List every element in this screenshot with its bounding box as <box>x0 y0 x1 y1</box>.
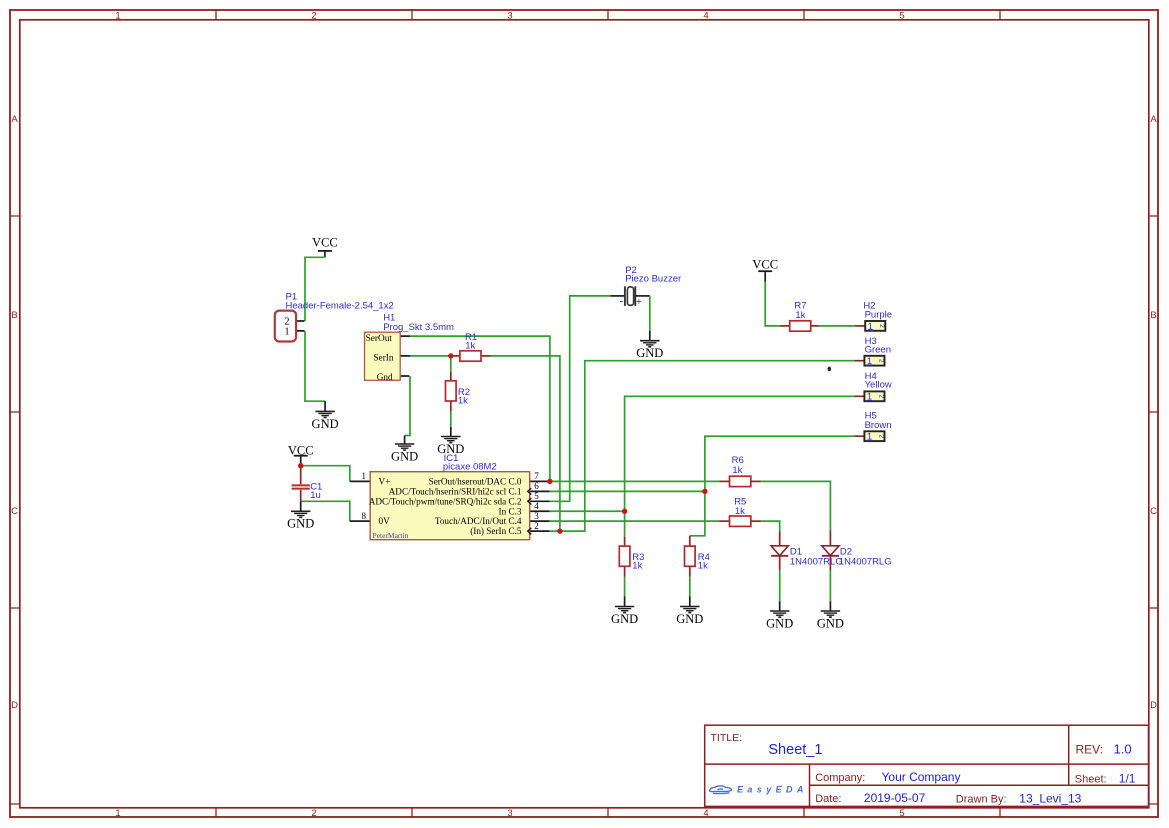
svg-text:GND: GND <box>676 612 703 626</box>
diode D2 1N4007RLG <box>822 530 892 570</box>
svg-text:+: + <box>636 297 642 308</box>
wire IC1 pin 6 row <box>550 490 705 492</box>
wire D2 to GND <box>829 570 831 601</box>
svg-text:VCC: VCC <box>312 235 338 249</box>
svg-text:7: 7 <box>534 471 539 481</box>
svg-text:1k: 1k <box>458 395 468 406</box>
svg-text:Sheet_1: Sheet_1 <box>768 742 822 758</box>
svg-text:Drawn By:: Drawn By: <box>956 793 1007 805</box>
ground (D2) <box>817 601 844 630</box>
svg-text:1k: 1k <box>698 560 708 571</box>
wire VCC to IC1 pin 1 <box>301 466 350 482</box>
wire D1 to GND <box>779 570 781 601</box>
svg-text:Piezo Buzzer: Piezo Buzzer <box>625 274 681 285</box>
socket H1 Prog_Skt 3.5mm <box>365 312 455 383</box>
svg-text:5: 5 <box>534 491 539 501</box>
svg-text:1k: 1k <box>735 506 745 517</box>
wire IC1 pin 3 to R5 <box>550 520 720 522</box>
svg-text:3: 3 <box>534 511 539 521</box>
svg-text:3: 3 <box>507 11 512 22</box>
svg-text:5: 5 <box>899 808 904 819</box>
svg-text:ADC/Touch/hserin/SRI/hi2c scl: ADC/Touch/hserin/SRI/hi2c scl C.1 <box>389 486 522 496</box>
wire pin6 junction up to H5 <box>705 436 854 491</box>
resistor R6 1k <box>719 455 761 487</box>
svg-text:SerIn: SerIn <box>373 353 393 363</box>
node junction VCC/C1 <box>298 463 303 468</box>
ground (R2) <box>437 427 464 456</box>
svg-text:In C.3: In C.3 <box>499 506 522 516</box>
svg-text:EasyEDA: EasyEDA <box>737 785 808 795</box>
svg-text:1: 1 <box>362 471 367 481</box>
ground (R4) <box>676 596 703 626</box>
wire pin4 junction up to H4 <box>625 396 855 511</box>
wire IC1 pin 2 row to H3 riser <box>550 361 855 531</box>
svg-text:B: B <box>1150 310 1156 321</box>
svg-text:2: 2 <box>877 434 884 438</box>
svg-text:GND: GND <box>766 616 793 630</box>
wire IC1 pin 4 row <box>550 510 625 512</box>
svg-text:Yellow: Yellow <box>865 380 892 391</box>
wire H1 Gnd to GND <box>405 376 410 436</box>
wire R2 to GND <box>450 411 452 427</box>
resistor R4 1k <box>685 536 710 577</box>
svg-text:Prog_Skt 3.5mm: Prog_Skt 3.5mm <box>383 322 454 333</box>
svg-text:1N4007RLG: 1N4007RLG <box>839 556 892 567</box>
svg-text:6: 6 <box>534 481 539 491</box>
svg-text:Gnd: Gnd <box>377 373 393 383</box>
wire C1 bottom to IC1 pin 8 <box>301 501 350 521</box>
svg-text:C: C <box>1150 506 1157 517</box>
svg-text:GND: GND <box>611 612 638 626</box>
svg-text:2: 2 <box>311 11 316 22</box>
svg-text:D: D <box>1150 700 1157 711</box>
wire H1 SerIn to R1/R2 junction <box>410 355 451 357</box>
header H4 Yellow <box>854 371 892 403</box>
svg-text:TITLE:: TITLE: <box>711 732 743 744</box>
pin arrows (input indicators) pins 6,5,2 <box>528 488 532 534</box>
svg-text:GND: GND <box>636 346 663 360</box>
svg-text:1k: 1k <box>465 340 475 351</box>
svg-text:A: A <box>1150 114 1157 125</box>
svg-text:4: 4 <box>534 501 539 511</box>
svg-text:Brown: Brown <box>865 420 892 431</box>
wire R4 to GND <box>689 577 691 597</box>
svg-text:GND: GND <box>391 449 418 463</box>
svg-text:0V: 0V <box>379 516 391 526</box>
svg-text:2: 2 <box>877 394 884 398</box>
svg-text:2: 2 <box>534 521 539 531</box>
ground (R3) <box>611 596 638 626</box>
svg-text:ADC/Touch/pwm/tune/SRQ/hi2c sd: ADC/Touch/pwm/tune/SRQ/hi2c sda C.2 <box>369 496 522 506</box>
svg-text:2019-05-07: 2019-05-07 <box>864 791 926 805</box>
svg-text:Header-Female-2.54_1x2: Header-Female-2.54_1x2 <box>286 301 394 312</box>
svg-text:8: 8 <box>362 511 367 521</box>
header H2 Purple <box>855 300 892 332</box>
svg-text:Company:: Company: <box>815 772 865 784</box>
svg-text:C: C <box>11 506 18 517</box>
node junction pin4 <box>622 509 627 514</box>
wire buzzer to GND <box>649 296 651 331</box>
svg-text:picaxe 08M2: picaxe 08M2 <box>443 462 497 473</box>
svg-text:Green: Green <box>865 344 891 355</box>
wire P1 pin 1 to GND <box>305 331 325 401</box>
ground (P2) <box>636 331 663 360</box>
wire VCC to R7 <box>765 282 779 326</box>
ground (D1) <box>766 601 793 630</box>
svg-text:B: B <box>11 310 17 321</box>
svg-text:5: 5 <box>899 11 904 22</box>
svg-text:(In) SerIn C.5: (In) SerIn C.5 <box>470 526 522 536</box>
svg-text:GND: GND <box>287 517 314 531</box>
svg-text:1u: 1u <box>310 490 321 501</box>
wire H1 SerOut to IC1 pin 7 <box>410 336 550 481</box>
svg-text:SerOut/hserout/DAC C.0: SerOut/hserout/DAC C.0 <box>429 476 522 486</box>
VCC symbol (right, at R7) <box>752 258 778 282</box>
svg-text:PeterMartin: PeterMartin <box>373 531 409 540</box>
svg-text:1/1: 1/1 <box>1119 771 1136 785</box>
svg-text:13_Levi_13: 13_Levi_13 <box>1019 791 1081 805</box>
svg-text:4: 4 <box>703 808 708 819</box>
header H5 Brown <box>854 411 891 443</box>
wire R1 to IC1 pin 2 riser <box>491 356 560 531</box>
svg-text:-: - <box>620 296 623 307</box>
svg-text:A: A <box>11 114 18 125</box>
svg-text:GND: GND <box>312 417 339 431</box>
svg-text:2: 2 <box>311 808 316 819</box>
VCC symbol (left, at C1) <box>288 443 314 464</box>
svg-text:Sheet:: Sheet: <box>1075 773 1107 785</box>
svg-text:SerOut: SerOut <box>366 334 393 344</box>
svg-text:1k: 1k <box>732 465 742 476</box>
svg-text:1k: 1k <box>632 561 642 572</box>
svg-text:V+: V+ <box>379 476 391 486</box>
resistor R1 1k <box>451 332 491 361</box>
wire R3 to GND <box>624 577 626 597</box>
svg-text:1: 1 <box>115 808 120 819</box>
wire IC1 pin 7 to R6 <box>550 480 720 482</box>
svg-text:Purple: Purple <box>865 309 892 320</box>
header H3 Green <box>854 336 891 367</box>
connector P1 Header-Female-2.54_1x2 <box>275 291 394 341</box>
svg-text:D: D <box>11 700 18 711</box>
svg-text:1N4007RLG: 1N4007RLG <box>790 556 843 567</box>
svg-text:1k: 1k <box>795 310 805 321</box>
VCC symbol (top, net VCC) <box>312 235 338 257</box>
wire R6 to D2 <box>761 481 831 530</box>
resistor R2 1k <box>446 356 471 411</box>
title block <box>705 725 1149 806</box>
wire pin6 junction down to R4 <box>690 491 705 535</box>
diode D1 1N4007RLG <box>771 531 843 570</box>
buzzer P2 Piezo Buzzer <box>610 265 681 308</box>
wire IC1 pin 5 to buzzer <box>550 296 611 501</box>
svg-text:2: 2 <box>878 324 885 328</box>
ground (P1) <box>312 401 339 431</box>
wire VCC to P1 pin 2 <box>305 257 325 321</box>
svg-text:1: 1 <box>285 327 290 338</box>
svg-text:3: 3 <box>507 808 512 819</box>
node junction pin6 <box>702 489 707 494</box>
ground (H1) <box>391 436 418 464</box>
svg-text:GND: GND <box>817 616 844 630</box>
svg-text:4: 4 <box>703 11 708 22</box>
ground (C1) <box>287 501 314 530</box>
EasyEDA logo <box>709 785 807 795</box>
svg-text:REV:: REV: <box>1076 742 1104 756</box>
node junction pin7/SerOut <box>547 479 552 484</box>
IC IC1 picaxe 08M2 <box>350 453 550 540</box>
wire R5 to D1 <box>761 521 780 531</box>
svg-text:Your Company: Your Company <box>882 770 961 784</box>
wire pin4 junction down to R3 <box>624 511 626 536</box>
svg-text:VCC: VCC <box>752 258 778 272</box>
svg-text:1.0: 1.0 <box>1114 741 1132 756</box>
svg-text:Date:: Date: <box>815 793 841 805</box>
svg-text:2: 2 <box>877 359 884 363</box>
wire R7 to H2 <box>819 325 855 327</box>
node junction pin2/SerIn <box>557 528 562 533</box>
svg-text:1: 1 <box>115 11 120 22</box>
node junction SerIn/R1/R2 <box>448 353 453 358</box>
capacitor C1 1u <box>292 466 323 502</box>
resistor R7 1k <box>780 300 819 331</box>
resistor R5 1k <box>719 497 761 527</box>
stray ink dot near H3 <box>828 367 831 372</box>
svg-text:Touch/ADC/In/Out C.4: Touch/ADC/In/Out C.4 <box>435 516 522 526</box>
resistor R3 1k <box>619 537 644 577</box>
